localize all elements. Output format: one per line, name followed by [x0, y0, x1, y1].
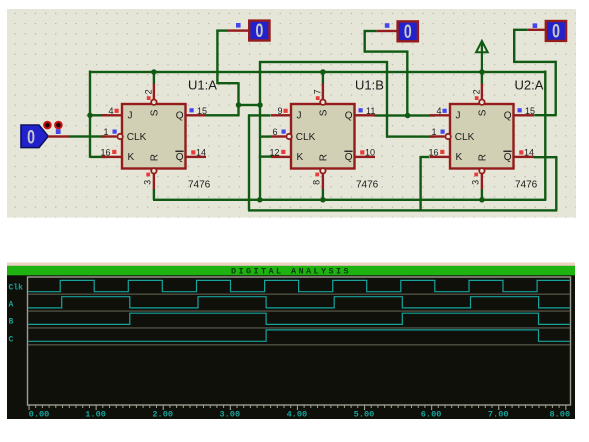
- svg-text:1: 1: [103, 127, 108, 137]
- svg-text:Q: Q: [176, 111, 184, 122]
- svg-text:3.00: 3.00: [219, 410, 240, 420]
- svg-text:0: 0: [552, 20, 560, 42]
- svg-text:1.00: 1.00: [85, 410, 106, 420]
- svg-text:Q: Q: [504, 111, 512, 122]
- svg-text:11: 11: [366, 106, 375, 116]
- svg-text:2.00: 2.00: [152, 410, 173, 420]
- svg-text:6.00: 6.00: [421, 410, 442, 420]
- svg-text:4: 4: [108, 106, 113, 116]
- svg-text:S: S: [149, 109, 160, 116]
- svg-text:16: 16: [428, 147, 438, 157]
- svg-text:8.00: 8.00: [549, 410, 570, 420]
- svg-text:0: 0: [255, 20, 263, 42]
- svg-text:12: 12: [269, 147, 279, 157]
- svg-text:7.00: 7.00: [488, 410, 509, 420]
- svg-text:J: J: [297, 111, 302, 122]
- svg-text:J: J: [456, 111, 461, 122]
- svg-text:2: 2: [472, 89, 482, 94]
- svg-text:8: 8: [312, 180, 322, 185]
- svg-text:K: K: [297, 152, 304, 163]
- svg-text:Clk: Clk: [9, 283, 24, 292]
- svg-text:A: A: [9, 301, 14, 310]
- svg-text:0: 0: [404, 21, 412, 43]
- svg-text:7476: 7476: [356, 179, 379, 190]
- svg-text:7476: 7476: [515, 179, 538, 190]
- svg-text:10: 10: [365, 147, 375, 157]
- svg-text:Q: Q: [345, 152, 353, 163]
- svg-text:R: R: [477, 154, 488, 161]
- svg-text:6: 6: [272, 127, 277, 137]
- svg-text:16: 16: [100, 147, 110, 157]
- svg-text:4: 4: [436, 106, 441, 116]
- svg-text:14: 14: [196, 147, 206, 157]
- svg-text:0.00: 0.00: [29, 410, 50, 420]
- svg-text:S: S: [477, 109, 488, 116]
- svg-text:U1:A: U1:A: [188, 78, 217, 93]
- svg-text:0: 0: [27, 126, 35, 148]
- svg-text:5.00: 5.00: [354, 410, 375, 420]
- svg-text:3: 3: [471, 180, 481, 185]
- svg-text:15: 15: [525, 106, 535, 116]
- svg-text:C: C: [9, 335, 14, 344]
- svg-text:S: S: [318, 109, 329, 116]
- svg-text:U2:A: U2:A: [515, 78, 544, 93]
- svg-text:U1:B: U1:B: [355, 78, 384, 93]
- svg-text:DIGITAL ANALYSIS: DIGITAL ANALYSIS: [231, 267, 351, 277]
- svg-text:K: K: [456, 152, 463, 163]
- svg-text:CLK: CLK: [127, 132, 147, 143]
- svg-text:1: 1: [431, 127, 436, 137]
- svg-text:J: J: [128, 111, 133, 122]
- svg-text:2: 2: [144, 89, 154, 94]
- svg-text:K: K: [128, 152, 135, 163]
- svg-text:R: R: [318, 154, 329, 161]
- svg-text:15: 15: [197, 106, 207, 116]
- svg-text:CLK: CLK: [455, 132, 475, 143]
- svg-text:Q: Q: [345, 111, 353, 122]
- svg-text:R: R: [149, 154, 160, 161]
- svg-text:Q: Q: [504, 152, 512, 163]
- svg-text:14: 14: [524, 147, 534, 157]
- svg-text:3: 3: [143, 180, 153, 185]
- svg-text:9: 9: [277, 106, 282, 116]
- svg-text:7476: 7476: [188, 179, 211, 190]
- svg-text:7: 7: [313, 89, 323, 94]
- svg-text:4.00: 4.00: [287, 410, 308, 420]
- svg-text:CLK: CLK: [296, 132, 316, 143]
- svg-text:B: B: [9, 317, 14, 326]
- svg-text:Q: Q: [176, 152, 184, 163]
